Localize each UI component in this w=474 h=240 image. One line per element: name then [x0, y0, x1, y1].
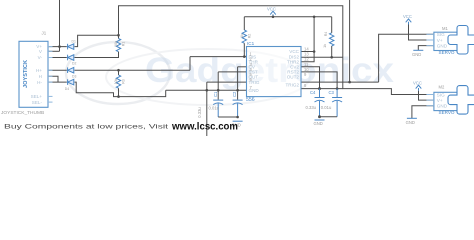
junction dot R3 bottom — [117, 95, 120, 98]
wire: cap ground rail left — [218, 116, 237, 118]
junction dot C1 lead on GND line — [217, 89, 220, 92]
capacitor C3 — [332, 98, 342, 103]
joystick pin stubs — [48, 47, 53, 103]
svg-text:10k: 10k — [114, 41, 118, 47]
svg-text:R3: R3 — [122, 79, 126, 84]
wire: pin11 row to C4 drop — [302, 67, 320, 89]
svg-text:10k: 10k — [114, 78, 118, 84]
diode D3 — [68, 67, 74, 73]
svg-text:V+: V+ — [437, 38, 443, 43]
svg-text:GND: GND — [437, 44, 448, 49]
wire: pin9 OUT2 long line to servo1 riser — [302, 81, 379, 83]
wire: top-left vertical from image edge — [59, 0, 61, 51]
wire: joystick V- to D2 — [48, 57, 67, 59]
wire: joystick V to vertical — [48, 50, 60, 52]
svg-text:C1: C1 — [213, 91, 218, 97]
svg-text:0.01u: 0.01u — [209, 105, 220, 110]
wire: right cap ground rail — [320, 116, 338, 118]
wire: joystick H jog to D4 row — [48, 76, 58, 82]
servo2 connector M2 — [426, 92, 459, 110]
resistor R1 — [116, 39, 120, 52]
diode D2 — [68, 55, 74, 61]
wire: GND net into IC pin7 — [166, 89, 247, 91]
wire: TRIG1 drop off bottom edge — [206, 82, 208, 136]
svg-text:C2: C2 — [232, 91, 237, 97]
wire: servo1 SIG riser — [379, 34, 434, 82]
wire: joystick H+ to D3 — [48, 69, 67, 71]
svg-text:C3: C3 — [329, 90, 335, 95]
junction dot at R3 top — [117, 69, 120, 72]
wire: D3 out to ladder — [75, 69, 191, 71]
vcc symbol top — [270, 11, 276, 17]
svg-text:SEL-: SEL- — [32, 100, 43, 105]
wire: joystick H- to D4 — [48, 81, 67, 83]
junction dot C4/pin11 node — [318, 87, 321, 90]
svg-text:IC1: IC1 — [247, 41, 255, 46]
wire: C1 bottom lead — [217, 103, 219, 117]
resistor R3 — [116, 75, 120, 88]
svg-text:D3: D3 — [72, 74, 76, 78]
servo1 connector M1 — [426, 32, 459, 50]
svg-text:JOYSTICK: JOYSTICK — [23, 60, 29, 88]
wire: pin10 row to C3 drop — [302, 72, 338, 89]
wire: vertical from image top to OUT2 line — [349, 0, 351, 82]
junction dot top-net tap — [348, 81, 351, 84]
svg-text:H: H — [39, 74, 42, 79]
svg-text:H+: H+ — [36, 68, 42, 73]
svg-text:SERVO: SERVO — [439, 110, 455, 115]
capacitor C1 — [213, 100, 223, 105]
svg-text:Buy Components at low prices,: Buy Components at low prices, Visit — [4, 124, 168, 131]
junction dot C3 node — [336, 87, 339, 90]
capacitor C2 — [233, 100, 243, 105]
svg-text:OUT2: OUT2 — [287, 75, 300, 80]
svg-text:M1: M1 — [442, 26, 448, 31]
wire: C2 bottom lead — [237, 103, 239, 117]
ground symbol left — [232, 121, 243, 127]
junction dot rail/gnd — [236, 116, 239, 119]
svg-text:0.01u: 0.01u — [321, 105, 332, 110]
wire: pin14 VCC stub to rail drop — [302, 51, 315, 53]
svg-text:J1: J1 — [42, 31, 47, 36]
svg-text:VCC: VCC — [267, 7, 276, 12]
svg-text:M2: M2 — [439, 84, 445, 89]
servo2 horn — [448, 86, 474, 115]
wire: R3 top lead — [118, 70, 120, 75]
wire: joystick V+ to D1 — [48, 46, 67, 48]
wire: pin8 TRIG2 row — [302, 88, 343, 90]
junction dot R2/pin1 — [243, 55, 246, 58]
junction dot vcc rail right drop — [313, 15, 316, 18]
junction dot V+/vertical — [58, 45, 61, 48]
wire: R4 bottom lead — [331, 46, 333, 57]
capacitor C4 — [315, 98, 325, 103]
wire: pin3 row to C2 drop — [238, 66, 247, 68]
wire: pin1 row from ladder — [190, 56, 247, 58]
svg-text:SIG: SIG — [437, 92, 445, 97]
wire: servo2 GND drop — [412, 106, 434, 119]
connector J1 joystick box — [19, 41, 48, 107]
ground symbol right-middle — [314, 120, 325, 126]
svg-text:SEL+: SEL+ — [31, 94, 43, 99]
IC left pin names — [249, 54, 260, 93]
svg-text:D1: D1 — [72, 40, 76, 44]
svg-text:GND: GND — [412, 52, 421, 57]
wire: C3 bottom lead — [336, 101, 338, 117]
wire: D4 out to GND riser — [75, 82, 166, 97]
svg-text:TRIG2: TRIG2 — [285, 83, 299, 88]
svg-text:0.33u: 0.33u — [306, 105, 317, 110]
svg-text:SIG: SIG — [437, 32, 445, 37]
wire: vcc to servo2 V+ — [419, 91, 434, 100]
wire: VCC rail drop to THR2 — [302, 17, 315, 62]
svg-text:1k: 1k — [323, 44, 327, 48]
svg-text:1k: 1k — [240, 34, 244, 38]
junction dot at R1 top — [117, 34, 120, 37]
junction dot C2 lead on GND line — [236, 89, 239, 92]
svg-text:R1: R1 — [122, 42, 126, 47]
svg-text:VCC: VCC — [403, 14, 412, 19]
IC right pin names — [285, 49, 299, 87]
svg-text:GND: GND — [406, 120, 415, 125]
IC1 556 box — [247, 47, 302, 97]
servo1 horn — [448, 26, 474, 55]
svg-text:H-: H- — [37, 80, 42, 85]
svg-text:JOYSTICK_THUMB: JOYSTICK_THUMB — [1, 110, 44, 116]
watermark swirl ellipse left — [66, 42, 310, 105]
wire: rect A outer loop — [119, 6, 434, 95]
wire: pin13 row to R4 — [302, 56, 343, 58]
IC right pin numbers — [304, 47, 309, 89]
wire: servo1 GND drop — [418, 46, 434, 51]
svg-text:D2: D2 — [72, 62, 76, 66]
wire: R2 bottom lead — [243, 43, 245, 56]
vcc symbol servo2 — [416, 85, 422, 91]
svg-text:R2: R2 — [247, 34, 251, 39]
resistor R4 — [330, 33, 334, 46]
wire: C2 drop vertical — [237, 67, 239, 100]
wire: R4 top lead from VCC rail — [331, 17, 333, 33]
svg-text:0.33u: 0.33u — [197, 107, 202, 118]
svg-text:www.lcsc.com: www.lcsc.com — [171, 121, 238, 132]
wire: R1 top lead — [118, 35, 120, 38]
junction dot pin14 — [313, 50, 316, 53]
wire: pin4 row to C1 drop — [218, 71, 246, 73]
diode D4 — [68, 79, 74, 85]
resistor R2 — [242, 30, 246, 43]
joystick pin names — [31, 44, 43, 105]
wire: vcc to servo1 V+ — [409, 25, 434, 41]
wire: pin6 row TRIG1 — [207, 81, 247, 83]
wire: C3 top lead — [336, 89, 338, 98]
wire: C4 top lead — [319, 89, 321, 98]
wire: R1 bottom lead to D2 out — [75, 52, 119, 58]
wire: R3 bottom lead — [118, 88, 120, 96]
wire: R2 top lead — [243, 17, 245, 30]
svg-text:V+: V+ — [437, 98, 443, 103]
junction dot vcc stem — [272, 15, 275, 18]
wire: D1 out riser to top net — [75, 35, 119, 46]
svg-text:V-: V- — [38, 55, 43, 60]
junction dot right rail gnd — [318, 115, 321, 118]
diode D1 — [68, 44, 74, 50]
svg-text:D4: D4 — [65, 87, 69, 91]
ground symbol servo2 — [406, 118, 417, 125]
ground symbol servo1 — [412, 50, 423, 57]
svg-text:R4: R4 — [324, 32, 328, 37]
svg-text:GND: GND — [314, 121, 323, 126]
svg-text:GND: GND — [437, 104, 448, 109]
wire: ladder vertical to H+ row — [189, 57, 191, 71]
svg-text:VCC: VCC — [413, 81, 422, 86]
IC left pin numbers — [249, 52, 252, 91]
wire: VCC rail — [244, 16, 331, 18]
vcc symbol servo1 — [406, 19, 412, 25]
wire: C1 drop vertical — [217, 72, 219, 100]
svg-text:C4: C4 — [310, 90, 316, 95]
svg-text:SERVO: SERVO — [439, 50, 455, 55]
svg-text:556: 556 — [246, 97, 255, 103]
junction dot TRIG1 drop on GND line — [206, 89, 209, 92]
wire: C4 bottom lead — [319, 101, 321, 117]
